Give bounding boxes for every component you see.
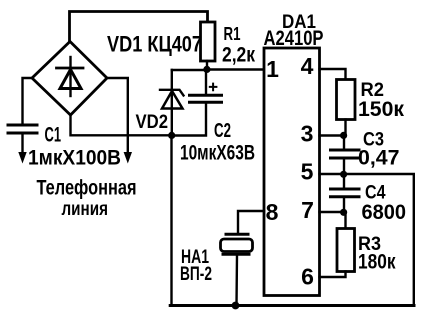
wire top rail from bridge top to R1 top [70,12,208,42]
svg-text:8: 8 [266,199,279,225]
capacitor C4 lead [343,174,345,189]
capacitor C4 top plate [331,188,360,191]
node junction HA1/bottom rail [232,302,240,310]
wire left vertex to C1 [23,78,33,124]
svg-text:1: 1 [266,56,279,82]
zener diode VD2 cathode bar with hook [160,90,184,96]
wire C2 bottom to VD2 junction [172,103,206,136]
svg-text:0,47: 0,47 [358,146,400,170]
svg-text:ВП-2: ВП-2 [180,264,212,285]
capacitor C3 top plate [331,149,360,152]
buzzer HA1 body pill [221,239,253,252]
svg-text:C1: C1 [45,123,62,147]
wire junction to R3 top [344,212,346,229]
wire pin 8 to HA1 [238,211,264,233]
svg-text:C2: C2 [214,120,231,142]
wire HA1 to bottom rail [235,255,238,306]
wire junction to pin 1 [207,68,264,70]
VD1 inner diode triangle [60,70,81,89]
wire right vertex down to arrow [107,78,128,153]
buzzer HA1 bottom plate [223,253,249,256]
wire C1 to arrow [21,134,23,153]
capacitor C2 top plate [190,94,222,97]
capacitor C3 lead [343,136,345,150]
wire C3 bottom to pin5 wire [343,158,345,174]
capacitor C1 bottom plate [8,132,37,135]
svg-text:линия: линия [62,199,109,220]
bottom rail [170,304,414,307]
wire R3 bottom to pin 6 [320,272,346,278]
VD1 inner diode vertical line [69,57,71,96]
svg-text:2,2к: 2,2к [222,43,255,67]
svg-text:6800: 6800 [362,200,407,224]
capacitor C4 bottom plate [331,195,360,198]
wire C4 bottom to pin7 junction [343,197,345,212]
resistor R3 body [337,229,355,272]
wire R2 bottom to pin3 junction [344,120,346,136]
resistor R2 body [337,80,356,120]
wire pin 3 to junction [320,134,345,136]
svg-text:7: 7 [301,197,314,223]
VD1 inner diode cathode bar [57,67,84,70]
zener diode VD2 vertical lead [171,70,173,136]
IC DA1 box [264,48,320,296]
svg-text:5: 5 [301,159,314,185]
svg-text:VD2: VD2 [136,112,169,133]
node junction pin5/C3/C4 [340,171,347,178]
wire R1 bottom to junction [206,61,208,70]
capacitor C2 bottom plate [190,101,222,104]
svg-text:150к: 150к [358,97,404,121]
svg-text:1мкХ100В: 1мкХ100В [28,146,121,170]
wire bottom vertex to VD2 junction [71,115,172,135]
svg-text:Телефонная: Телефонная [37,177,137,200]
node junction R1/VD2/C2/pin1 [203,66,210,73]
wire pin 7 to junction [320,211,345,213]
capacitor C1 top plate [8,124,37,127]
wire VD2 top to R1 junction [172,69,207,71]
svg-text:3: 3 [301,121,314,147]
svg-text:180к: 180к [358,250,396,274]
buzzer HA1 top plate [226,233,248,236]
resistor R1 body [201,22,216,61]
svg-text:6: 6 [301,264,314,290]
node junction pin3/R2/C3 [340,132,347,139]
svg-text:4: 4 [301,53,314,79]
capacitor C2 lead from junction [205,70,207,95]
svg-text:R1: R1 [224,24,241,44]
wire pin 5 to right border [320,174,414,306]
bridge rectifier VD1 diamond [32,42,107,116]
arrow telephone line right [124,152,132,164]
capacitor C3 bottom plate [331,157,360,160]
zener diode VD2 triangle [162,91,183,109]
svg-text:10мкХ63В: 10мкХ63В [180,142,255,165]
arrow telephone line left [18,152,26,164]
svg-text:VD1 КЦ407: VD1 КЦ407 [107,32,202,57]
capacitor C2 plus sign [210,84,217,91]
node junction VD2 bottom [168,132,175,139]
node junction pin7/C4/R3 [340,209,347,216]
svg-text:А2410Р: А2410Р [264,27,324,50]
wire VD2 junction down to bottom rail [170,136,172,306]
wire pin 4 to R2 top [320,69,346,80]
